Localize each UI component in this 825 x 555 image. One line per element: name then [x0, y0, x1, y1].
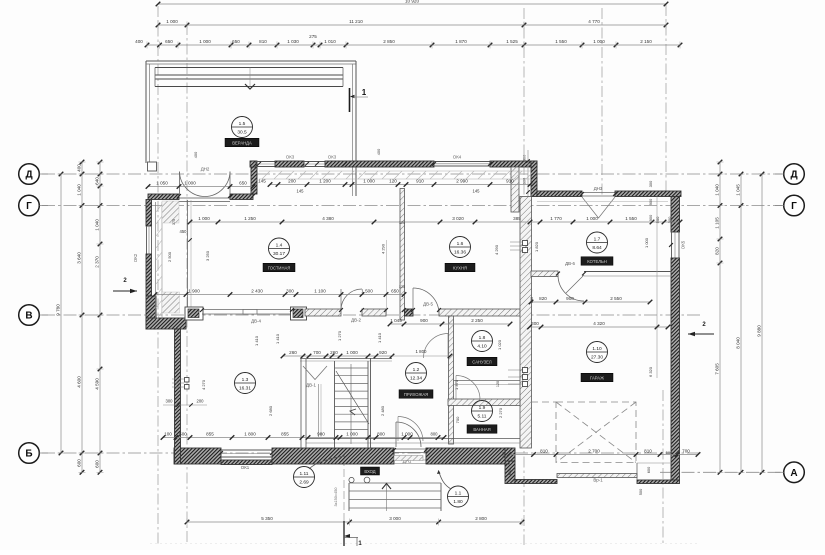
staircase centre divider — [350, 364, 352, 444]
svg-text:ОК3: ОК3 — [286, 155, 295, 160]
svg-text:375: 375 — [172, 219, 176, 225]
north wall G axis right part — [615, 191, 681, 197]
svg-text:3 640: 3 640 — [77, 252, 82, 264]
vertical grid dashed x187 — [186, 24, 188, 545]
svg-text:1 410: 1 410 — [254, 335, 259, 346]
svg-text:900: 900 — [420, 318, 428, 323]
svg-text:1 105: 1 105 — [715, 217, 720, 229]
svg-text:900: 900 — [522, 177, 527, 184]
axis circle Б — [19, 443, 40, 464]
svg-text:145: 145 — [473, 189, 481, 194]
svg-text:4 290: 4 290 — [494, 244, 499, 255]
svg-text:1 525: 1 525 — [506, 39, 518, 44]
room box 1.7 — [581, 257, 613, 266]
svg-text:200: 200 — [197, 399, 205, 404]
svg-text:16.31: 16.31 — [239, 385, 251, 391]
svg-text:3 250: 3 250 — [205, 250, 210, 261]
north wall left segment (entry, D axis zone) — [148, 194, 179, 200]
svg-text:1 000: 1 000 — [586, 216, 598, 221]
corridor wall block — [405, 309, 414, 316]
axis circle Д — [784, 164, 805, 185]
room circle 1.3 — [235, 373, 256, 394]
hall top thin wall above stairs — [300, 358, 392, 360]
svg-text:650: 650 — [239, 181, 247, 186]
svg-text:500: 500 — [501, 451, 506, 458]
door 1.2 to 1.8 arc — [424, 334, 449, 359]
svg-text:В: В — [25, 311, 32, 322]
svg-text:1: 1 — [362, 88, 367, 97]
svg-text:1 000: 1 000 — [184, 181, 196, 186]
svg-text:1 000: 1 000 — [199, 39, 211, 44]
svg-text:385: 385 — [513, 216, 521, 221]
closet divider — [318, 384, 320, 437]
svg-text:2 850: 2 850 — [383, 39, 395, 44]
svg-text:30.5: 30.5 — [237, 129, 247, 135]
room 1.3 east wall — [300, 359, 302, 448]
veranda right wall — [352, 64, 354, 196]
axis line V — [42, 314, 700, 316]
svg-text:120: 120 — [399, 221, 405, 225]
svg-text:7 605: 7 605 — [715, 363, 720, 375]
axis circle А — [784, 462, 805, 483]
svg-text:ДВ-2: ДВ-2 — [351, 318, 361, 323]
svg-text:600: 600 — [646, 466, 651, 473]
svg-text:1 020: 1 020 — [497, 339, 502, 350]
svg-text:2 550: 2 550 — [610, 296, 622, 301]
svg-text:300: 300 — [530, 297, 534, 303]
svg-text:400: 400 — [135, 39, 143, 44]
svg-text:650: 650 — [165, 39, 173, 44]
svg-text:1 800: 1 800 — [244, 432, 256, 437]
svg-text:ДВ-5: ДВ-5 — [423, 302, 433, 307]
svg-text:900: 900 — [566, 296, 574, 301]
svg-text:4 290: 4 290 — [381, 243, 386, 254]
svg-text:1 200: 1 200 — [319, 179, 331, 184]
svg-text:1 000: 1 000 — [644, 237, 649, 248]
svg-text:145: 145 — [297, 189, 305, 194]
door DN3 opening and swing triangle — [582, 192, 615, 194]
dim row y329 garage top — [530, 326, 669, 328]
south porch step wall — [505, 448, 515, 461]
vent blocks garage wall — [523, 368, 528, 373]
svg-text:1 550: 1 550 — [555, 39, 567, 44]
svg-text:1 370: 1 370 — [454, 379, 459, 390]
axis circle Д — [19, 164, 40, 185]
corridor wall on V axis - west post — [185, 307, 203, 320]
svg-text:ОК4: ОК4 — [453, 155, 462, 160]
svg-text:1.3: 1.3 — [242, 377, 249, 383]
veranda pergola beams — [155, 67, 343, 69]
door DV-6 arc — [558, 275, 584, 301]
west wall upper (with OK2) — [146, 200, 152, 227]
svg-text:4.10: 4.10 — [477, 343, 487, 349]
svg-text:400: 400 — [193, 151, 198, 158]
door DN1 threshold — [394, 448, 426, 450]
svg-text:980: 980 — [317, 432, 325, 437]
north wall right of entry door — [230, 194, 253, 200]
door DV-1 pivot V symbol — [303, 366, 327, 380]
svg-text:810: 810 — [540, 449, 548, 454]
pilaster below north wall at x511 — [511, 167, 519, 212]
svg-text:ДН2: ДН2 — [201, 167, 210, 172]
room circle 1.10 — [587, 342, 608, 363]
svg-text:500: 500 — [655, 216, 660, 223]
insulation diagonals below north wall — [262, 171, 534, 179]
door to 1.11 arc — [398, 417, 423, 442]
window OK3 right — [304, 161, 325, 163]
corridor wall east segment — [439, 309, 520, 316]
svg-text:ВХОД: ВХОД — [364, 469, 375, 474]
axis line B — [42, 452, 700, 454]
svg-text:650: 650 — [391, 289, 399, 294]
vertical grid dashed x524 — [523, 8, 525, 545]
south wall east segment — [426, 448, 509, 464]
svg-text:1 030: 1 030 — [287, 39, 299, 44]
vertical grid dashed x663 bottom — [662, 390, 664, 545]
svg-text:400: 400 — [376, 148, 381, 155]
staircase direction arrow — [336, 371, 369, 424]
svg-text:800: 800 — [431, 432, 439, 437]
svg-text:2 680: 2 680 — [268, 405, 273, 416]
gate Vr-1 dashed square with X — [556, 402, 636, 463]
room name box VERANDA — [225, 138, 259, 147]
svg-text:1 000: 1 000 — [346, 432, 358, 437]
svg-text:8 040: 8 040 — [736, 337, 741, 349]
svg-text:3х150=450: 3х150=450 — [334, 488, 338, 507]
room circle 1.4 — [269, 238, 290, 259]
east wall upper — [671, 197, 680, 233]
room box 1.2 — [399, 390, 433, 399]
veranda SW porch post — [148, 162, 157, 171]
door DV-5 arc — [413, 288, 439, 313]
svg-text:1 100: 1 100 — [314, 289, 326, 294]
svg-text:300: 300 — [667, 216, 672, 223]
svg-text:700: 700 — [455, 416, 460, 423]
room circle 1.11 — [294, 467, 315, 488]
garage inner face line — [656, 197, 658, 379]
shelf line between 1.8 and 1.9 — [454, 380, 521, 382]
veranda top wall — [146, 60, 356, 62]
garage dashed line — [531, 401, 556, 403]
corridor door DV-4 opening lines — [202, 309, 292, 311]
svg-text:650: 650 — [232, 39, 240, 44]
svg-text:120: 120 — [389, 179, 397, 184]
corridor south thin wall — [306, 438, 520, 440]
svg-text:2 800: 2 800 — [475, 516, 487, 521]
svg-text:910: 910 — [506, 179, 514, 184]
svg-text:500: 500 — [638, 488, 643, 495]
svg-text:300: 300 — [531, 321, 539, 326]
svg-text:САНУЗЕЛ: САНУЗЕЛ — [472, 359, 492, 364]
svg-text:1 410: 1 410 — [377, 332, 382, 343]
svg-text:8.64: 8.64 — [592, 245, 602, 251]
svg-text:820: 820 — [715, 247, 720, 255]
svg-text:2 370: 2 370 — [95, 256, 100, 268]
section mark 1 top — [349, 88, 351, 112]
axis line A — [660, 471, 782, 473]
south wall west segment — [174, 448, 221, 464]
svg-text:Д: Д — [790, 170, 797, 181]
right dimension column x741 — [740, 174, 742, 472]
door DN1 swing arc — [396, 422, 421, 447]
west wall lower — [175, 329, 181, 464]
svg-text:10 920: 10 920 — [405, 0, 419, 4]
svg-text:4 770: 4 770 — [588, 19, 600, 24]
west wall pier upper — [162, 201, 179, 223]
room circle 1.7 — [587, 232, 608, 253]
left dimension column x82 — [81, 162, 83, 472]
corridor wall segment 2 — [362, 309, 386, 316]
corridor wall post — [291, 307, 307, 320]
svg-text:800: 800 — [377, 432, 385, 437]
dim row y184 entry — [148, 186, 253, 188]
room circle 1.6 — [450, 237, 471, 258]
room circle 1.8 — [472, 331, 493, 352]
svg-text:9 880: 9 880 — [757, 325, 762, 337]
vertical grid dashed x158 — [157, 6, 159, 545]
west wall pier lower — [162, 292, 180, 313]
window OK4 — [434, 161, 490, 163]
svg-text:1.4: 1.4 — [276, 242, 283, 248]
room box 1.10 — [581, 373, 613, 382]
svg-text:ДВ-6: ДВ-6 — [565, 261, 575, 266]
svg-text:275: 275 — [309, 34, 317, 39]
north wall right segment — [490, 161, 537, 167]
svg-text:1 010: 1 010 — [324, 39, 336, 44]
svg-text:1 820: 1 820 — [534, 241, 539, 252]
dim row y354 stair area — [283, 355, 392, 357]
svg-text:855: 855 — [206, 432, 214, 437]
svg-text:120: 120 — [399, 285, 405, 289]
svg-text:1.11: 1.11 — [300, 471, 309, 477]
thin line x386 — [386, 240, 388, 316]
svg-text:1 050: 1 050 — [156, 181, 168, 186]
top dimension row 3 (small dims) — [147, 44, 680, 46]
svg-text:500: 500 — [179, 432, 187, 437]
svg-text:ВАННАЯ: ВАННАЯ — [473, 427, 490, 432]
svg-text:1 040: 1 040 — [715, 184, 720, 196]
svg-text:855: 855 — [281, 432, 289, 437]
svg-text:1 045: 1 045 — [390, 318, 402, 323]
room box 1.6 — [445, 263, 475, 272]
svg-text:300: 300 — [522, 154, 527, 161]
window OK3 left — [256, 161, 275, 163]
svg-text:810: 810 — [644, 449, 652, 454]
svg-text:2 250: 2 250 — [471, 318, 483, 323]
svg-text:2 500: 2 500 — [167, 251, 172, 262]
dim row y456 porch — [509, 454, 698, 456]
svg-text:100: 100 — [164, 432, 172, 437]
staircase rails — [334, 361, 336, 448]
north wall G axis left part — [537, 191, 582, 197]
svg-text:2 430: 2 430 — [251, 289, 263, 294]
svg-text:1 770: 1 770 — [550, 216, 562, 221]
svg-text:4 600: 4 600 — [77, 376, 82, 388]
svg-text:ДВ-4: ДВ-4 — [251, 319, 261, 324]
room circle 1.1 — [448, 486, 469, 507]
entry door DN2 threshold — [179, 197, 230, 199]
west wall below OK2 — [146, 254, 152, 296]
porch west step wall — [505, 461, 515, 484]
svg-text:1 270: 1 270 — [337, 330, 342, 341]
svg-text:Б: Б — [25, 449, 32, 460]
svg-text:300: 300 — [648, 180, 653, 187]
dim row y222 — [190, 221, 680, 223]
svg-text:6 320: 6 320 — [648, 366, 653, 377]
wall between 1.8 and 1.9 — [448, 399, 520, 406]
north wall east of veranda — [325, 161, 434, 167]
axis circle В — [19, 305, 40, 326]
svg-text:1 800: 1 800 — [416, 349, 428, 354]
door DV-2 arc — [341, 289, 362, 310]
svg-text:27.30: 27.30 — [591, 354, 603, 360]
svg-text:640: 640 — [95, 177, 100, 185]
faint bottom edge line — [150, 543, 700, 545]
wall between 1.6-1.7 and garage (continuous) — [520, 197, 532, 449]
wall between corridor 1.2 and rooms 1.8/1.9 — [449, 316, 454, 444]
porch bottom wall west — [515, 480, 557, 484]
svg-text:200: 200 — [288, 179, 296, 184]
right dimension column x762 — [761, 174, 763, 472]
svg-text:ГОСТИНАЯ: ГОСТИНАЯ — [268, 265, 291, 270]
OK3 middle post — [275, 161, 304, 167]
svg-text:2.69: 2.69 — [299, 479, 309, 485]
room box 1.9 — [467, 425, 497, 434]
axis circle Г — [784, 195, 805, 216]
axis circle Г — [19, 195, 40, 216]
sill line below G wall — [537, 201, 668, 203]
svg-text:4 380: 4 380 — [322, 216, 334, 221]
dim row y184 north rooms — [270, 184, 530, 186]
svg-text:500: 500 — [666, 450, 673, 455]
svg-text:820: 820 — [539, 296, 547, 301]
svg-text:1 870: 1 870 — [455, 39, 467, 44]
svg-text:11 210: 11 210 — [349, 19, 363, 24]
svg-text:ОК2: ОК2 — [133, 253, 138, 262]
right dimension column x720 — [719, 162, 721, 472]
room 1.4 west face double line — [187, 200, 189, 308]
axis line G — [42, 205, 782, 207]
svg-text:1 000: 1 000 — [593, 39, 605, 44]
left dimension column x61 — [60, 174, 62, 453]
svg-text:700: 700 — [313, 350, 321, 355]
svg-text:1 000: 1 000 — [166, 19, 178, 24]
room 1.7 south wall — [531, 271, 558, 277]
svg-text:260: 260 — [330, 350, 338, 355]
svg-text:4 270: 4 270 — [201, 379, 206, 390]
entry door DN2 leaf arcs — [180, 172, 206, 197]
room box 1.4 — [263, 263, 295, 272]
svg-text:2 700: 2 700 — [588, 449, 600, 454]
svg-text:12.34: 12.34 — [410, 375, 422, 381]
svg-text:1 000: 1 000 — [363, 179, 375, 184]
dim row y294 (V axis north side) — [155, 294, 404, 296]
svg-text:1 410: 1 410 — [275, 333, 280, 344]
east wall lower — [671, 258, 680, 480]
south-east porch corner wall — [637, 480, 680, 484]
svg-text:2 270: 2 270 — [498, 407, 503, 418]
svg-text:920: 920 — [379, 350, 387, 355]
entrance black box VHOD — [361, 467, 380, 475]
svg-text:А: А — [790, 468, 797, 479]
bottom dimension row — [187, 521, 522, 523]
svg-text:600: 600 — [77, 459, 82, 467]
svg-text:ГАРАЖ: ГАРАЖ — [590, 375, 604, 380]
svg-text:Г: Г — [791, 201, 797, 212]
svg-text:300: 300 — [286, 289, 294, 294]
wall between rooms 1.4 and 1.6 — [400, 189, 405, 321]
vent blocks near stairs — [185, 378, 190, 383]
svg-text:1 000: 1 000 — [346, 350, 358, 355]
west wall step — [146, 318, 186, 329]
window OK2 — [146, 226, 148, 254]
svg-text:Вр-1: Вр-1 — [593, 478, 603, 483]
section mark 1 bottom — [343, 521, 345, 546]
top dimension row 2 — [158, 24, 666, 26]
svg-text:ОК5: ОК5 — [681, 240, 686, 249]
leader 1.11 — [309, 456, 345, 469]
svg-text:1 000: 1 000 — [401, 432, 413, 437]
svg-text:1 550: 1 550 — [625, 216, 637, 221]
svg-text:450: 450 — [180, 229, 188, 234]
svg-text:910: 910 — [416, 179, 424, 184]
svg-text:2 480: 2 480 — [380, 405, 385, 416]
window OK1 — [221, 449, 272, 451]
svg-text:2 990: 2 990 — [456, 179, 468, 184]
veranda left wall — [145, 61, 147, 163]
window sill lines below OK3-OK4 — [259, 170, 530, 172]
svg-text:ОК1: ОК1 — [241, 465, 250, 470]
svg-text:ВЕРАНДА: ВЕРАНДА — [232, 140, 252, 145]
svg-text:1.9: 1.9 — [479, 405, 486, 411]
svg-text:1.7: 1.7 — [594, 236, 601, 242]
svg-text:16.36: 16.36 — [454, 249, 466, 255]
svg-text:145: 145 — [258, 179, 266, 184]
vertical grid dashed x344 — [343, 458, 345, 521]
dim row y302 right — [531, 301, 650, 303]
svg-text:1.1: 1.1 — [455, 490, 462, 496]
svg-text:4 320: 4 320 — [593, 321, 605, 326]
svg-text:КУХНЯ: КУХНЯ — [453, 265, 467, 270]
svg-text:810: 810 — [259, 39, 267, 44]
svg-text:5 350: 5 350 — [261, 516, 273, 521]
small tick clusters inner — [200, 308, 204, 312]
svg-text:1 250: 1 250 — [244, 216, 256, 221]
wall east of DV-6 — [584, 271, 671, 273]
svg-text:ПРИХОЖАЯ: ПРИХОЖАЯ — [404, 392, 428, 397]
svg-text:Д: Д — [25, 170, 32, 181]
vent blocks room 1.7 wall — [523, 241, 528, 246]
svg-text:120: 120 — [496, 381, 500, 387]
external entrance stair — [348, 483, 350, 511]
svg-text:400: 400 — [77, 164, 82, 172]
top dimension row 1 (10 920) — [158, 3, 666, 5]
svg-text:260: 260 — [289, 350, 297, 355]
svg-text:30.17: 30.17 — [273, 251, 285, 257]
svg-text:1 500: 1 500 — [361, 289, 373, 294]
svg-text:600: 600 — [507, 468, 512, 475]
svg-text:1.2: 1.2 — [413, 367, 420, 373]
svg-text:300: 300 — [166, 399, 174, 404]
svg-text:1.80: 1.80 — [453, 499, 463, 505]
north wall with OK3 windows — [250, 161, 256, 167]
left dimension column x100 — [99, 162, 101, 472]
svg-text:ДВ-1: ДВ-1 — [306, 383, 316, 388]
svg-text:1 040: 1 040 — [95, 219, 100, 231]
svg-text:ДН3: ДН3 — [594, 186, 603, 191]
porch east step line — [636, 463, 638, 480]
west inner face line — [155, 202, 157, 318]
